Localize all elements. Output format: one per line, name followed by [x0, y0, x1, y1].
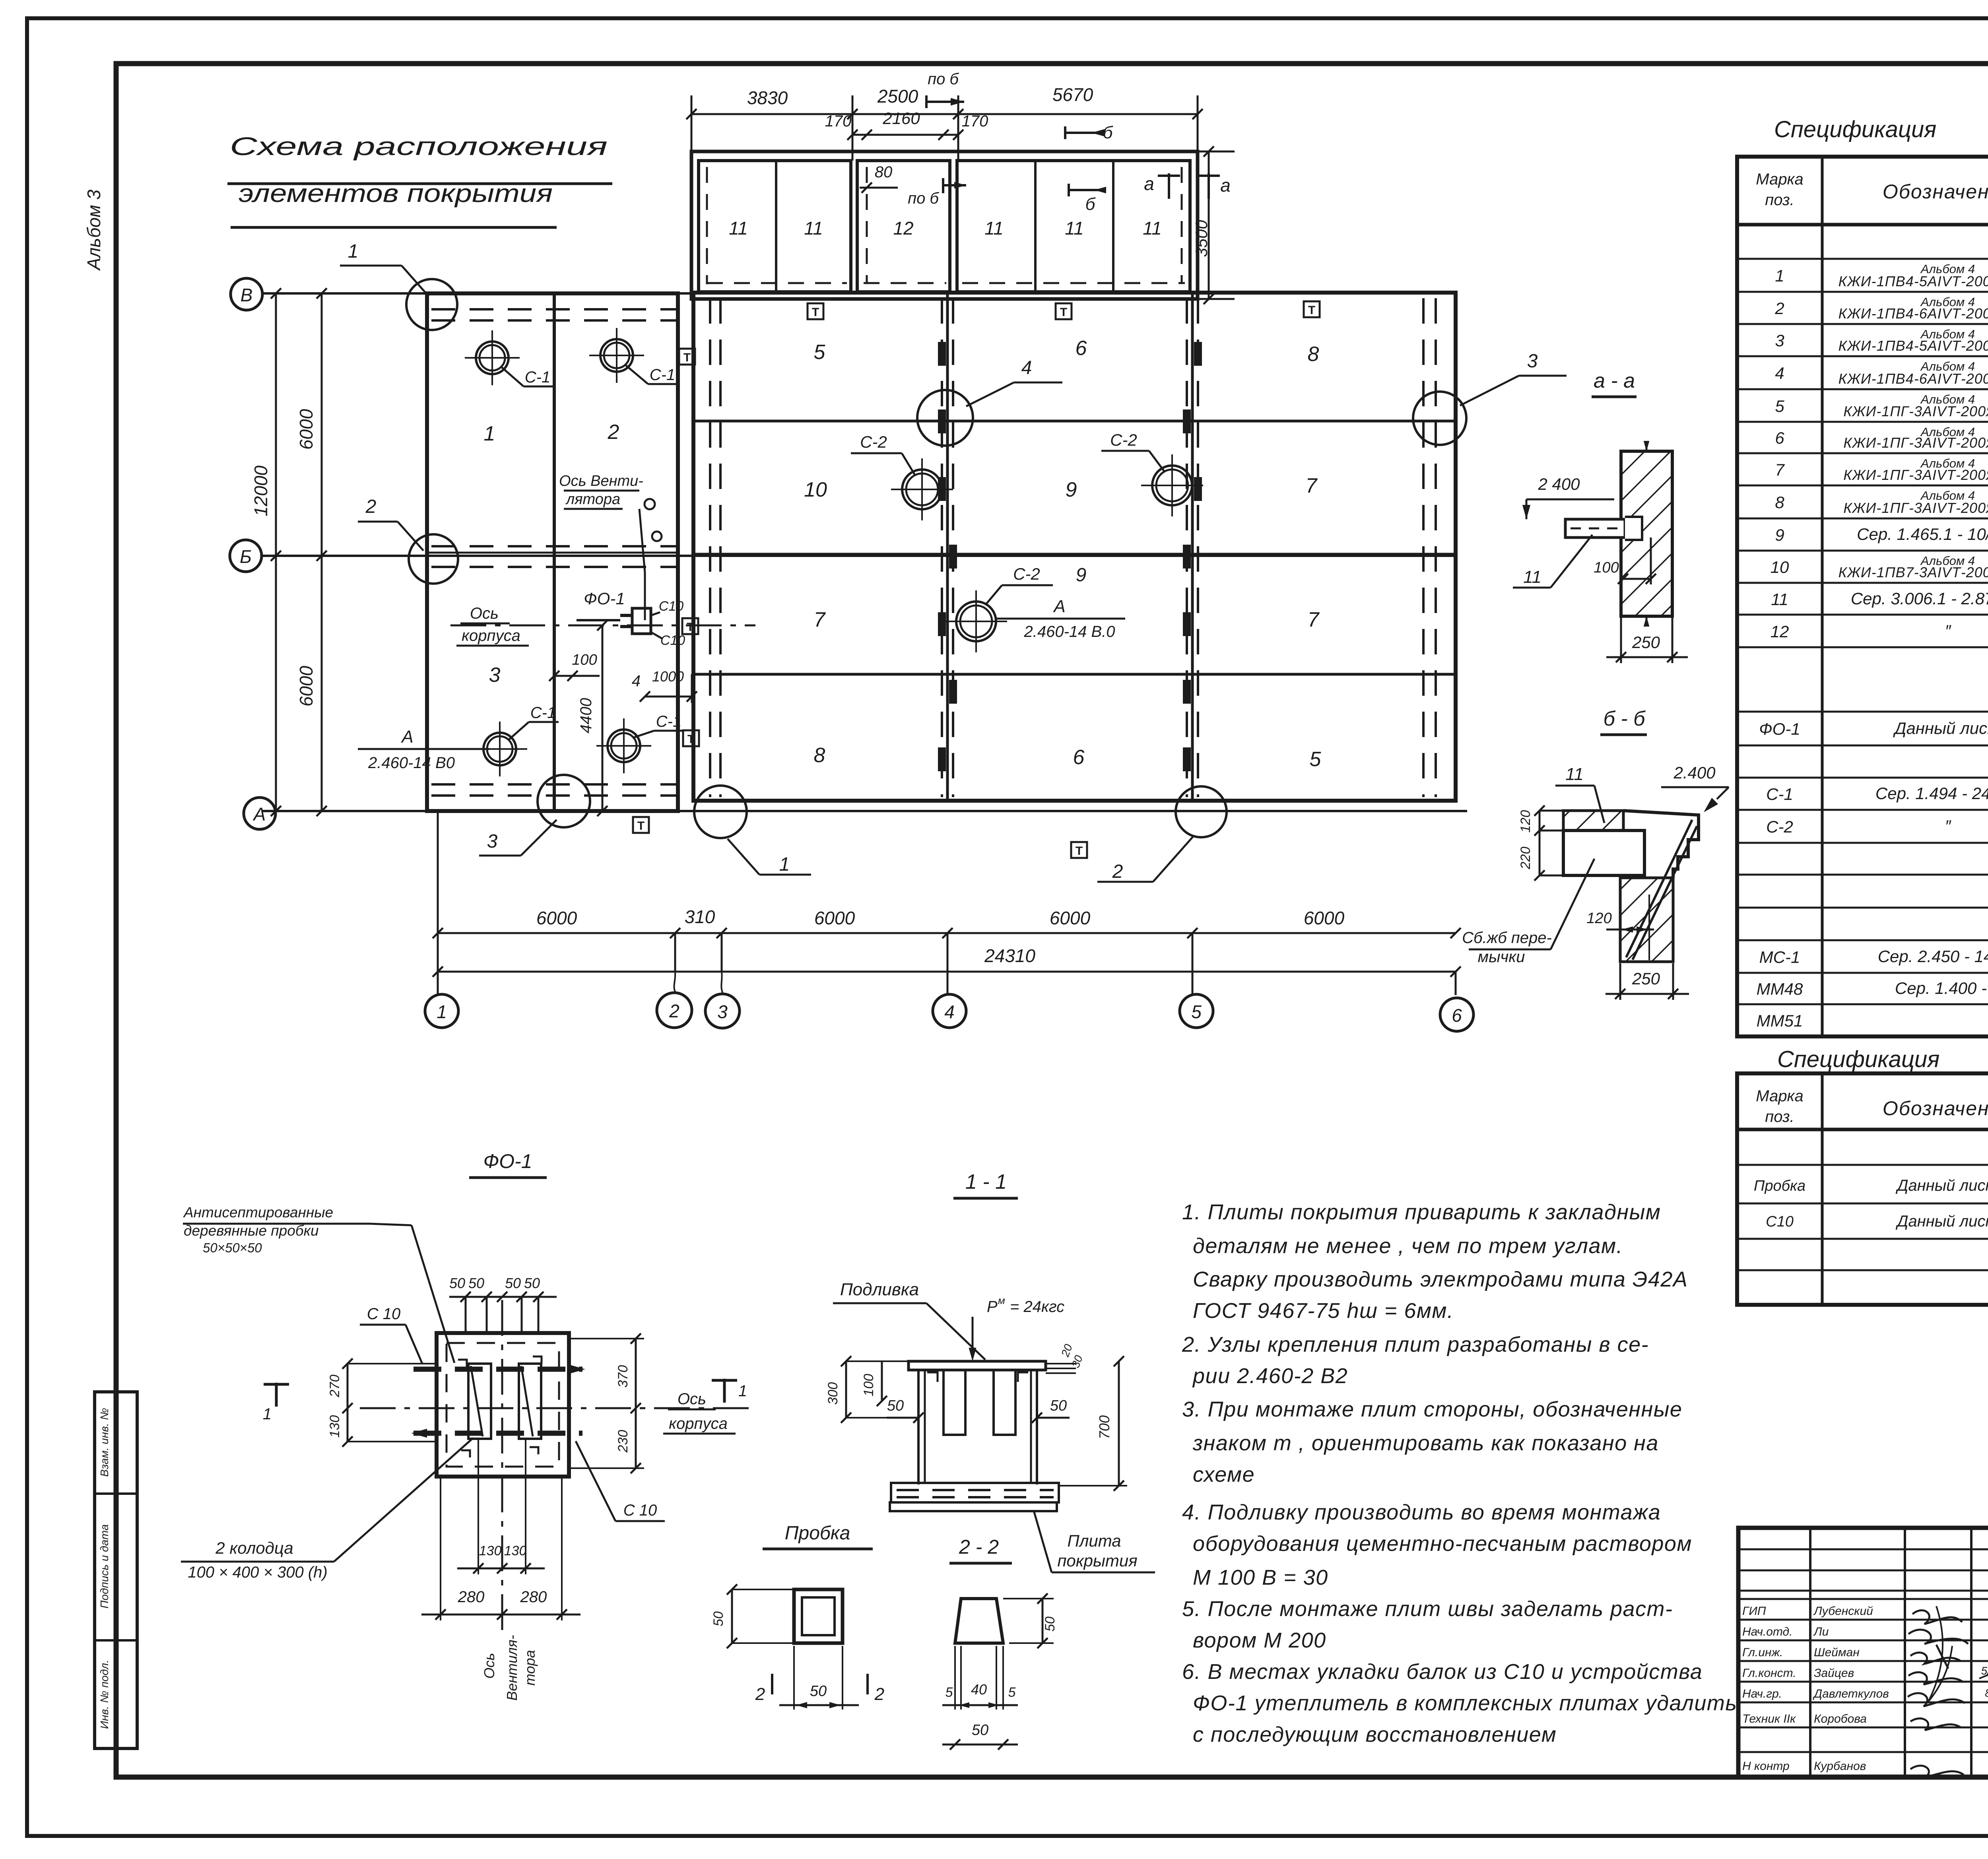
svg-text:1. Плиты покрытия приварить: 1. Плиты покрытия приварить к закладным: [1182, 1200, 1661, 1224]
svg-text:4: 4: [944, 1001, 955, 1022]
node circle bottom right roof: [1176, 786, 1227, 837]
1-1 right leg: [1030, 1370, 1032, 1483]
svg-text:3500: 3500: [1192, 220, 1211, 257]
svg-text:6: 6: [1452, 1005, 1462, 1026]
svg-text:оборудования цементно-песчан: оборудования цементно-песчаным раствором: [1193, 1532, 1692, 1556]
leader 4 roof: [917, 390, 973, 446]
svg-text:130: 130: [327, 1415, 342, 1438]
b-b beam rect: [1563, 831, 1644, 875]
svg-text:6000: 6000: [814, 908, 855, 928]
svg-text:Шейман: Шейман: [1814, 1646, 1860, 1659]
svg-text:6000: 6000: [296, 666, 316, 706]
svg-text:Подливка: Подливка: [840, 1280, 919, 1299]
node detail circle bottom centre: [538, 775, 590, 827]
svg-text:КЖИ-1ПГ-3АIVТ-200Я-500М-3: КЖИ-1ПГ-3АIVТ-200Я-500М-3: [1843, 467, 1988, 483]
leader 3 top (to roof corner): [1413, 392, 1466, 445]
stakan C-1 bottom right: [596, 718, 651, 773]
lintel group 2 (cell 12): [857, 161, 950, 292]
svg-text:Спецификация: Спецификация: [1777, 1046, 1939, 1072]
svg-text:ФО-1 утеплитель в комплексных: ФО-1 утеплитель в комплексных плитах уда…: [1193, 1691, 1737, 1715]
svg-text:Марка: Марка: [1756, 1087, 1803, 1105]
b-b dims 220 120: [1539, 811, 1541, 875]
stakan C-2 row3: [945, 590, 1007, 652]
svg-text:130: 130: [479, 1543, 502, 1558]
svg-text:11: 11: [1065, 218, 1084, 239]
svg-text:2 - 2: 2 - 2: [959, 1536, 999, 1558]
svg-text:Плита: Плита: [1067, 1531, 1121, 1550]
vertical dimension line 12000: [275, 293, 277, 811]
stakan C-2 row2 left: [891, 458, 953, 520]
svg-text:Сер. 1.494 - 24 В.1: Сер. 1.494 - 24 В.1: [1875, 784, 1988, 803]
svg-text:вором М 200: вором М 200: [1193, 1628, 1326, 1652]
svg-text:Вентиля-: Вентиля-: [504, 1635, 520, 1700]
FO-1 centre lines: [501, 1300, 503, 1634]
svg-text:370: 370: [615, 1365, 631, 1388]
svg-text:ГОСТ 9467-75 hш = 6мм.: ГОСТ 9467-75 hш = 6мм.: [1193, 1299, 1454, 1323]
svg-text:3. При монтаже плит стороны: 3. При монтаже плит стороны, обозначенны…: [1182, 1397, 1682, 1421]
svg-text:А: А: [252, 804, 266, 825]
svg-text:11: 11: [1143, 218, 1162, 239]
svg-text:5670: 5670: [1052, 84, 1093, 105]
svg-text:2.460-14 В.0: 2.460-14 В.0: [1023, 623, 1115, 640]
svg-text:Пробка: Пробка: [785, 1523, 850, 1544]
a-a wall top arrow: [1646, 441, 1648, 451]
svg-text:Техник IIк: Техник IIк: [1742, 1712, 1796, 1725]
svg-text:ФО-1: ФО-1: [1759, 720, 1800, 738]
svg-text:с последующим восстановление: с последующим восстановлением: [1193, 1723, 1557, 1746]
FO-1 T1 mark left: [275, 1383, 278, 1407]
svg-text:КЖИ-1ПВ4-6АIVТ-200Я-500М-1: КЖИ-1ПВ4-6АIVТ-200Я-500М-1: [1839, 305, 1988, 322]
svg-text:4: 4: [1021, 357, 1032, 378]
b-b dim 250 bottom: [1619, 963, 1621, 1000]
svg-text:мычки: мычки: [1478, 948, 1525, 966]
lintel dim row 1: [691, 113, 1198, 115]
svg-text:2: 2: [755, 1684, 765, 1704]
label C-1: [625, 365, 648, 384]
svg-text:Сер. 1.400 - 7: Сер. 1.400 - 7: [1895, 979, 1988, 997]
1-1 bottom slab 2: [890, 1502, 1057, 1511]
svg-text:С-2: С-2: [1110, 431, 1137, 449]
2-2 dims 5 40 5: [954, 1646, 956, 1710]
section mark б top: [1065, 132, 1097, 134]
svg-text:7: 7: [1308, 608, 1320, 631]
lintel strip outer: [691, 151, 1198, 299]
label C-1: [633, 731, 654, 738]
svg-text:12000: 12000: [250, 466, 271, 516]
column circle 2: [657, 993, 692, 1028]
svg-text:3: 3: [1775, 331, 1784, 350]
svg-text:Зайцев: Зайцев: [1814, 1667, 1854, 1680]
FO-1 slot left: [468, 1364, 491, 1439]
svg-text:3: 3: [1527, 351, 1538, 372]
FO-1 T1 mark right: [723, 1379, 726, 1403]
svg-text:100 × 400 × 300 (h): 100 × 400 × 300 (h): [188, 1564, 327, 1581]
grid line Б: [262, 555, 1456, 557]
svg-text:Данный лист: Данный лист: [1895, 1177, 1988, 1194]
svg-text:Сер. 2.450 - 14 В0: Сер. 2.450 - 14 В0: [1878, 947, 1988, 966]
svg-text:Коробова: Коробова: [1814, 1712, 1867, 1725]
FO-1 foundation box in plan: [632, 608, 651, 634]
grid line А: [262, 810, 1467, 812]
svg-text:10: 10: [1771, 558, 1789, 576]
svg-text:Гл.инж.: Гл.инж.: [1742, 1646, 1783, 1659]
svg-text:4: 4: [632, 672, 641, 690]
svg-text:1000: 1000: [652, 668, 684, 685]
plate joint dashed pair (col 5): [1187, 298, 1198, 797]
svg-text:11: 11: [1523, 567, 1541, 587]
svg-text:280: 280: [520, 1588, 547, 1606]
stakan C-1 bottom left: [472, 722, 527, 776]
svg-text:5: 5: [1310, 748, 1322, 771]
svg-text:Подпись и дата: Подпись и дата: [98, 1524, 111, 1609]
b-b plate rib diagonals: [1626, 820, 1692, 957]
svg-text:9: 9: [1775, 526, 1784, 544]
FO-1 right dims 370 230: [635, 1339, 637, 1468]
svg-text:6000: 6000: [1050, 908, 1091, 928]
1-1 left dims 300 100: [845, 1361, 847, 1418]
svg-text:50: 50: [972, 1722, 988, 1739]
svg-text:50: 50: [524, 1275, 540, 1291]
FO-1 left dims 270 130: [347, 1364, 349, 1442]
svg-text:8: 8: [814, 744, 825, 767]
FO-1 dashed inner: [447, 1343, 559, 1467]
dashed lines along top edge: [431, 308, 676, 310]
svg-text:Т: Т: [1060, 306, 1067, 319]
1-1 slot right: [994, 1370, 1015, 1435]
svg-text:50: 50: [1050, 1397, 1067, 1414]
svg-text:50: 50: [887, 1397, 904, 1414]
roof row line 3: [693, 673, 1456, 676]
svg-text:40: 40: [971, 1681, 987, 1698]
svg-text:С10: С10: [1766, 1213, 1794, 1230]
title block top blank rows: [1738, 1549, 1988, 1550]
svg-text:Т: Т: [637, 819, 645, 832]
node detail circle at В: [406, 279, 457, 330]
svg-text:Сер. 3.006.1 - 2.87 Вып 2: Сер. 3.006.1 - 2.87 Вып 2: [1851, 589, 1988, 608]
svg-text:7: 7: [1306, 474, 1318, 497]
svg-text:4: 4: [1775, 364, 1784, 382]
svg-text:3: 3: [487, 831, 498, 852]
svg-text:6000: 6000: [296, 409, 316, 450]
roof column line 5: [1191, 293, 1194, 801]
svg-text:300: 300: [825, 1382, 841, 1405]
svg-text:6. В местах укладки балок и: 6. В местах укладки балок из С10 и устро…: [1182, 1660, 1703, 1684]
svg-text:11: 11: [804, 218, 823, 239]
svg-text:1: 1: [437, 1001, 447, 1022]
axis circle В: [231, 278, 262, 310]
svg-text:8: 8: [1308, 343, 1319, 366]
table 2 frame: [1737, 1073, 1988, 1305]
bottom dimension line (spans): [438, 932, 1456, 934]
svg-text:120: 120: [1586, 910, 1611, 927]
stakan C-2 row2 right: [1141, 454, 1203, 516]
svg-text:Антисептированные: Антисептированные: [183, 1204, 333, 1221]
svg-text:12: 12: [1771, 622, 1789, 641]
bottom total dimension 24310: [438, 971, 1456, 973]
svg-text:С 10: С 10: [623, 1502, 657, 1519]
svg-text:ГИП: ГИП: [1742, 1605, 1766, 1618]
svg-text:б: б: [1103, 123, 1114, 142]
svg-text:100: 100: [861, 1374, 876, 1397]
svg-text:″: ″: [1945, 817, 1952, 835]
roof column line 4: [946, 293, 949, 801]
svg-text:= 24кгс: = 24кгс: [1010, 1298, 1064, 1316]
1-1 slot left: [944, 1370, 965, 1435]
lintel group 3: [957, 161, 1190, 292]
svg-text:280: 280: [458, 1588, 485, 1606]
svg-text:50: 50: [711, 1611, 726, 1626]
svg-text:100: 100: [572, 652, 597, 668]
svg-text:тора: тора: [522, 1650, 538, 1686]
svg-text:5: 5: [1775, 397, 1784, 415]
svg-text:А: А: [400, 727, 413, 747]
svg-text:2: 2: [874, 1684, 884, 1704]
svg-text:С-1: С-1: [1766, 785, 1793, 803]
svg-text:6: 6: [1775, 429, 1784, 447]
svg-text:С-2: С-2: [1013, 565, 1040, 583]
svg-text:б: б: [1085, 194, 1096, 214]
svg-text:4400: 4400: [577, 698, 595, 734]
plate joint dashed pair (right): [1422, 298, 1425, 797]
svg-text:80: 80: [875, 163, 893, 181]
svg-text:11: 11: [729, 218, 748, 239]
roof row line 2 (on line Б): [693, 553, 1456, 556]
svg-text:КЖИ-1ПГ-3АIVТ-200Я-500М-2: КЖИ-1ПГ-3АIVТ-200Я-500М-2: [1843, 435, 1988, 451]
svg-text:5: 5: [1191, 1001, 1202, 1022]
svg-text:130: 130: [504, 1543, 527, 1558]
svg-text:9: 9: [1076, 565, 1087, 586]
svg-text:220: 220: [1518, 847, 1533, 870]
title block signature columns: [1809, 1528, 1811, 1777]
svg-text:2160: 2160: [882, 109, 920, 128]
node circle bottom left roof: [694, 786, 747, 838]
svg-text:поз.: поз.: [1765, 1108, 1794, 1125]
a-a wall hatched: [1621, 451, 1672, 616]
svg-text:50: 50: [1043, 1616, 1058, 1632]
lintel dim row 2: [852, 134, 958, 136]
svg-text:2. Узлы крепления плит разр: 2. Узлы крепления плит разработаны в се-: [1182, 1333, 1649, 1356]
probka dim 50 left: [731, 1589, 733, 1643]
svg-text:по б: по б: [928, 70, 959, 88]
svg-text:лятора: лятора: [565, 491, 620, 508]
svg-text:1: 1: [779, 854, 790, 875]
title block frame: [1738, 1528, 1988, 1777]
svg-text:6000: 6000: [536, 908, 577, 928]
svg-text:С 10: С 10: [367, 1305, 401, 1323]
stakan C-1 top right: [589, 328, 644, 383]
svg-text:В: В: [241, 285, 253, 305]
svg-text:С10: С10: [659, 599, 683, 614]
svg-text:покрытия: покрытия: [1057, 1551, 1137, 1570]
svg-text:Б: Б: [240, 546, 252, 567]
svg-text:КЖИ-1ПВ4-5АIVТ-200Я-500М-1: КЖИ-1ПВ4-5АIVТ-200Я-500М-1: [1839, 273, 1988, 289]
axis circle Б: [230, 540, 262, 572]
svg-text:2500: 2500: [877, 86, 918, 107]
svg-text:9: 9: [1066, 478, 1077, 501]
svg-text:корпуса: корпуса: [669, 1415, 728, 1432]
svg-text:2 400: 2 400: [1538, 475, 1580, 493]
svg-text:а: а: [1220, 175, 1231, 196]
FO-1 slot right: [519, 1364, 541, 1439]
node detail circle at Б: [409, 534, 458, 584]
svg-text:б - б: б - б: [1604, 707, 1646, 730]
svg-text:Ось: Ось: [678, 1390, 706, 1408]
column line extensions: [437, 811, 439, 994]
FO-1 corner hooks: [458, 1360, 467, 1367]
column circle 4: [933, 994, 966, 1028]
section mark б inner: [1069, 189, 1101, 191]
svg-text:1 - 1: 1 - 1: [965, 1170, 1007, 1193]
svg-text:Обозначение: Обозначение: [1883, 1097, 1988, 1120]
svg-text:Т: Т: [683, 351, 691, 364]
2-2 dim 50 bottom: [942, 1744, 1018, 1746]
svg-text:КЖИ-1ПГ-3АIVТ-200Я-500М-1: КЖИ-1ПГ-3АIVТ-200Я-500М-1: [1843, 403, 1988, 419]
column circle 5: [1180, 994, 1213, 1028]
2-2 trapezoid: [955, 1599, 1003, 1643]
svg-text:рии 2.460-2 В2: рии 2.460-2 В2: [1192, 1364, 1348, 1388]
svg-text:″: ″: [1945, 621, 1952, 640]
svg-text:11: 11: [1565, 765, 1584, 784]
svg-text:50: 50: [810, 1683, 827, 1700]
svg-text:230: 230: [615, 1430, 631, 1453]
vent axis small circles: [645, 499, 655, 509]
building centre divider: [553, 293, 556, 811]
svg-text:Т: Т: [687, 621, 694, 634]
label C-1: [508, 722, 529, 740]
svg-text:Пробка: Пробка: [1754, 1178, 1806, 1194]
svg-text:Сварку производить электрода: Сварку производить электродами типа Э42А: [1193, 1267, 1688, 1291]
svg-text:2: 2: [669, 1001, 679, 1021]
svg-text:7: 7: [814, 608, 826, 631]
svg-text:Ось Венти-: Ось Венти-: [559, 473, 643, 489]
svg-text:50: 50: [505, 1275, 521, 1291]
svg-text:м: м: [998, 1294, 1005, 1306]
svg-text:Схема расположения: Схема расположения: [230, 132, 608, 161]
svg-text:120: 120: [1518, 810, 1533, 833]
svg-text:Т: Т: [1308, 304, 1315, 317]
svg-text:2.400: 2.400: [1673, 763, 1716, 782]
svg-text:310: 310: [685, 906, 715, 927]
svg-text:2.460-14 В0: 2.460-14 В0: [368, 754, 455, 772]
svg-text:2 колодца: 2 колодца: [215, 1539, 293, 1557]
1-1 top plate: [909, 1361, 1046, 1370]
svg-text:Альбом 3: Альбом 3: [83, 189, 104, 271]
roof row line 1: [693, 420, 1456, 423]
svg-text:элементов покрытия: элементов покрытия: [239, 179, 553, 208]
a-a dim 250: [1620, 616, 1622, 663]
2-2 dim 50 right: [1042, 1599, 1044, 1643]
svg-text:6: 6: [1076, 337, 1087, 360]
svg-text:5: 5: [1008, 1685, 1016, 1700]
left margin stamp boxes: [95, 1392, 137, 1748]
svg-text:а: а: [1144, 173, 1154, 194]
svg-text:2: 2: [1112, 861, 1123, 882]
svg-text:С-1: С-1: [525, 369, 550, 386]
svg-text:Ли: Ли: [1813, 1625, 1829, 1638]
probka square: [794, 1589, 843, 1643]
svg-text:КЖИ-1ПГ-3АIVТ-200Я-500М-4: КЖИ-1ПГ-3АIVТ-200Я-500М-4: [1843, 500, 1988, 516]
svg-text:8: 8: [1775, 493, 1784, 512]
svg-text:Обозначение: Обозначение: [1883, 180, 1988, 203]
svg-text:А: А: [1052, 597, 1065, 616]
1-1 bottom slab (plita): [891, 1483, 1059, 1502]
1-1 dim 700: [1118, 1361, 1120, 1486]
lintel group 1: [699, 161, 851, 292]
stakan C-1 top left: [465, 330, 520, 385]
b-b plate stepped outline: [1623, 811, 1699, 878]
svg-text:5: 5: [945, 1685, 953, 1700]
svg-text:МС-1: МС-1: [1759, 948, 1800, 966]
svg-text:11: 11: [984, 218, 1004, 239]
svg-text:Марка: Марка: [1756, 171, 1803, 188]
svg-text:Ось: Ось: [481, 1653, 497, 1679]
T orientation boxes: [808, 303, 823, 319]
column circle 6: [1440, 998, 1474, 1031]
svg-text:Гл.конст.: Гл.конст.: [1742, 1667, 1796, 1680]
svg-text:С-1: С-1: [656, 713, 681, 730]
svg-text:5: 5: [814, 341, 826, 364]
svg-text:Сер. 1.465.1 - 10/82 В.1: Сер. 1.465.1 - 10/82 В.1: [1857, 525, 1988, 543]
roof plan outline: [693, 293, 1456, 801]
svg-text:ФО-1: ФО-1: [483, 1150, 532, 1172]
svg-text:1: 1: [263, 1405, 272, 1423]
axis circle А: [244, 798, 276, 829]
svg-text:1: 1: [1775, 266, 1784, 285]
1-1 right small dims 20 30: [1046, 1363, 1076, 1364]
svg-text:50: 50: [468, 1275, 484, 1291]
svg-text:Лубенский: Лубенский: [1813, 1605, 1873, 1618]
svg-text:С-2: С-2: [1766, 817, 1793, 836]
svg-text:100: 100: [1594, 559, 1619, 576]
svg-text:12: 12: [893, 218, 913, 239]
a-a plate bar: [1565, 519, 1625, 538]
svg-text:170: 170: [825, 113, 852, 130]
FO-1 top dims 50 50 50 50: [465, 1297, 467, 1333]
plate joint dashed pair (left): [709, 298, 711, 797]
svg-text:Спецификация: Спецификация: [1774, 116, 1936, 142]
b-b lintel hatched: [1563, 811, 1623, 831]
svg-text:Н контр: Н контр: [1742, 1760, 1790, 1773]
svg-text:7: 7: [1775, 460, 1785, 479]
svg-text:270: 270: [327, 1375, 342, 1398]
svg-text:С-2: С-2: [860, 433, 887, 451]
label C-1: [502, 367, 524, 386]
svg-text:корпуса: корпуса: [462, 627, 520, 644]
svg-text:Давлеткулов: Давлеткулов: [1813, 1687, 1889, 1700]
probka dim 50 bottom: [779, 1704, 859, 1706]
svg-text:700: 700: [1096, 1415, 1112, 1439]
svg-text:250: 250: [1632, 633, 1660, 652]
dashed lines along bottom edge: [431, 783, 676, 786]
svg-text:11: 11: [1771, 590, 1788, 609]
table 1 frame: [1737, 157, 1988, 1036]
svg-text:3: 3: [717, 1001, 728, 1022]
housing axis line: [450, 625, 755, 627]
svg-text:6: 6: [1073, 746, 1085, 769]
svg-text:С-1: С-1: [650, 366, 675, 384]
svg-text:Данный лист: Данный лист: [1893, 719, 1988, 737]
grid line В: [262, 292, 693, 295]
svg-text:КЖИ-1ПВ4-5АIVТ-200Я-500М-2: КЖИ-1ПВ4-5АIVТ-200Я-500М-2: [1839, 338, 1988, 354]
svg-text:по б: по б: [908, 190, 939, 207]
dim 4400 vertical: [602, 625, 604, 811]
FO-1 square outer: [437, 1333, 569, 1477]
svg-text:ФО-1: ФО-1: [584, 589, 625, 608]
svg-text:а - а: а - а: [1594, 369, 1635, 392]
svg-text:С-1: С-1: [530, 704, 556, 722]
svg-text:50×50×50: 50×50×50: [203, 1240, 262, 1255]
svg-text:170: 170: [962, 113, 988, 130]
